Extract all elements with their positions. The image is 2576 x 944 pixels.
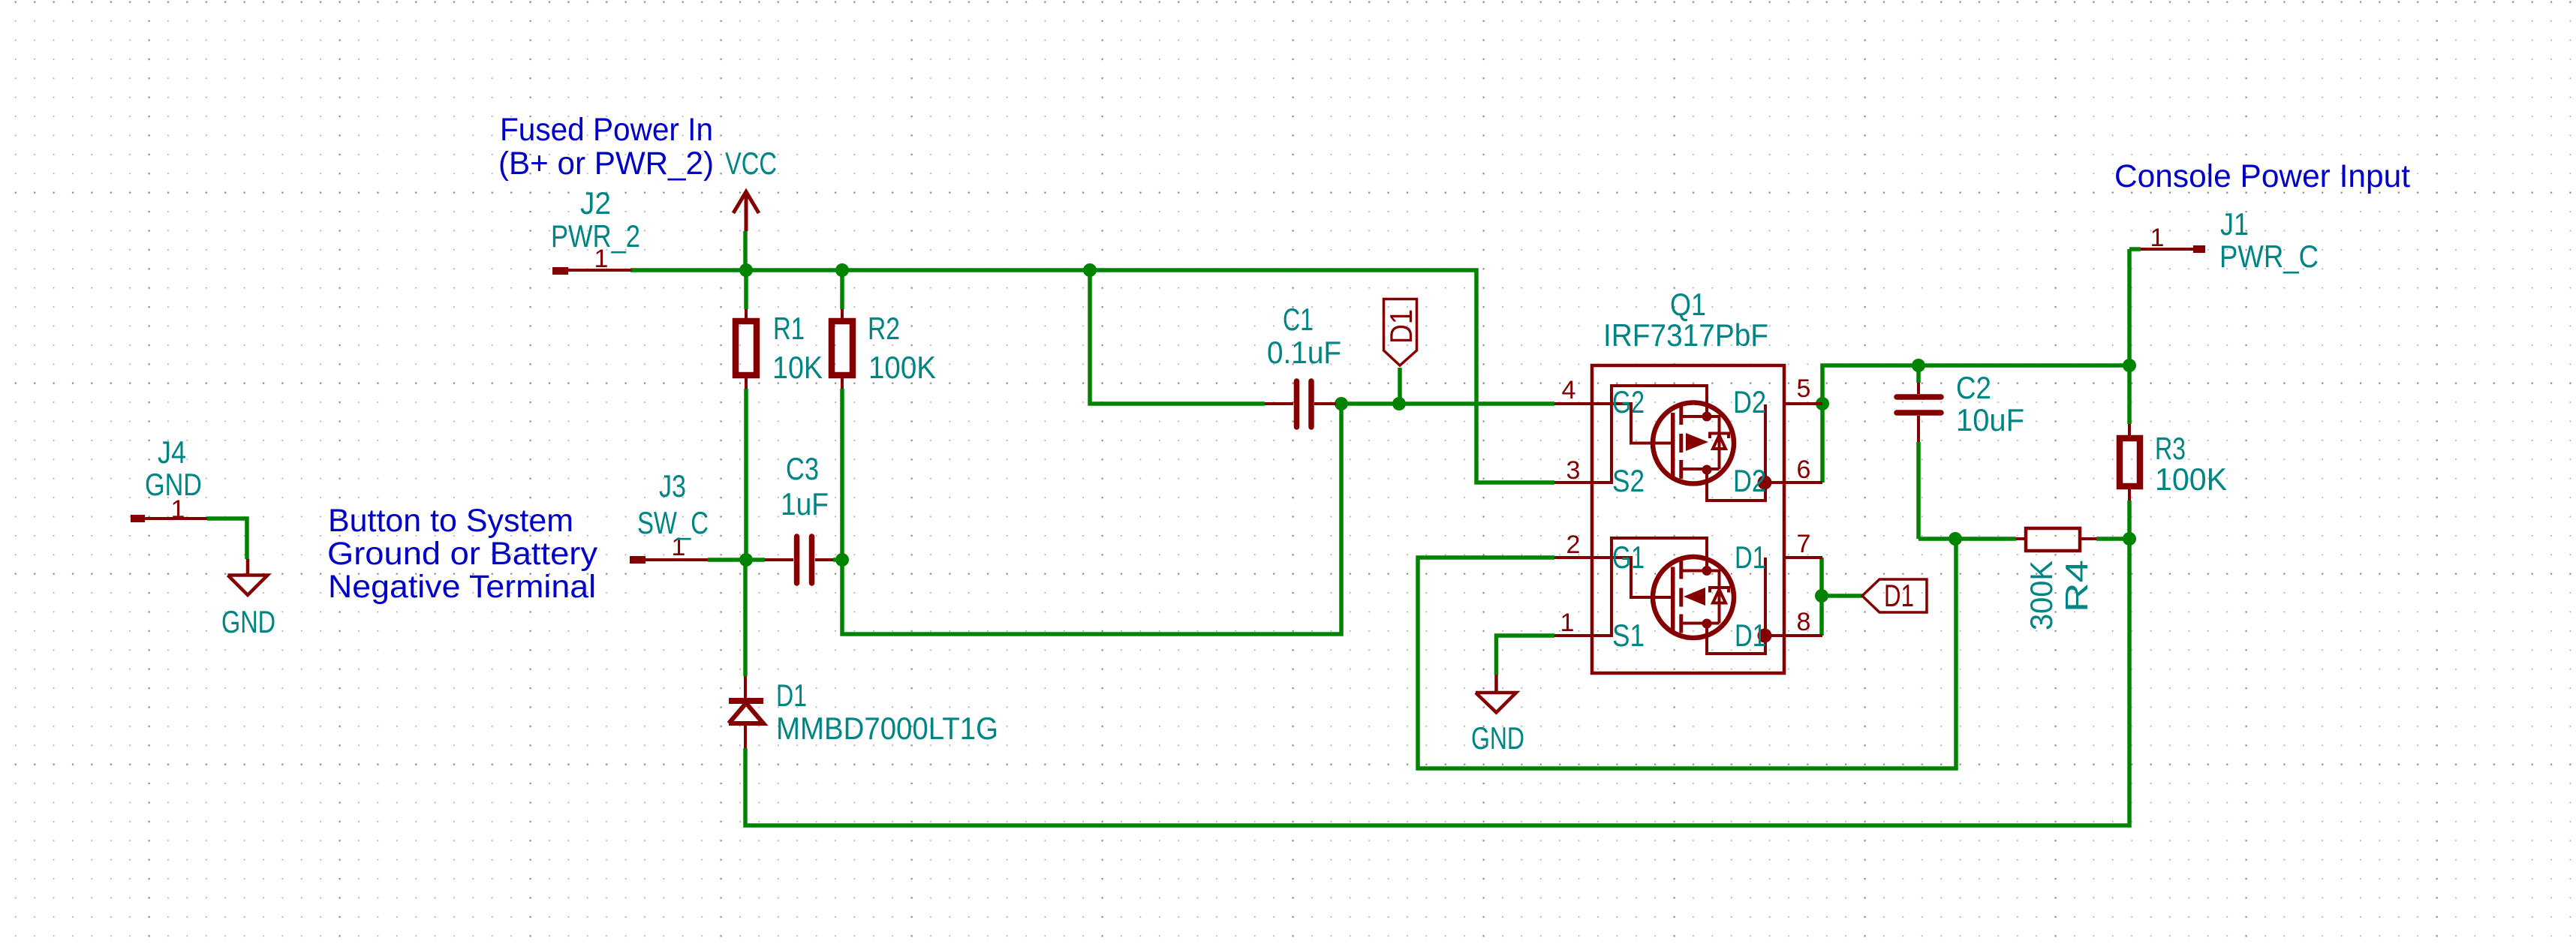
junction R3 bottom <box>2123 532 2136 546</box>
resistor R1 <box>736 309 757 389</box>
pin 1 S1 <box>1554 538 1707 636</box>
svg-text:1: 1 <box>1560 609 1575 637</box>
svg-text:D1: D1 <box>1884 578 1914 613</box>
svg-text:Q1: Q1 <box>1670 287 1706 322</box>
svg-text:R3: R3 <box>2155 431 2186 466</box>
svg-text:VCC: VCC <box>725 146 777 181</box>
svg-text:300K: 300K <box>2024 561 2059 630</box>
svg-text:D1: D1 <box>1735 618 1766 653</box>
svg-text:J3: J3 <box>659 468 686 504</box>
connector J2 pin <box>552 267 631 275</box>
wire top rail from J2 to Q1 pin 3 <box>630 270 1554 483</box>
wire J4 to GND <box>207 519 247 559</box>
wire R2 bottom <box>840 389 844 560</box>
ground symbol at Q1 <box>1476 675 1516 713</box>
wire node 717 left <box>1918 537 2016 541</box>
wire C3 right to C1 right <box>833 404 1341 634</box>
net flag D1 horizontal <box>1862 578 1927 613</box>
resistor R4 <box>2016 528 2096 551</box>
wire G1 net <box>1418 539 1956 768</box>
wire tie pins 5-6 <box>1820 404 1825 483</box>
svg-text:(B+ or PWR_2): (B+ or PWR_2) <box>498 146 714 182</box>
svg-text:6: 6 <box>1797 455 1811 484</box>
svg-text:3: 3 <box>1566 456 1581 485</box>
svg-text:R1: R1 <box>773 311 805 346</box>
wire R3 bottom <box>2127 501 2132 539</box>
wire J1 down <box>2129 249 2141 365</box>
junction VCC rail at R2 <box>835 263 849 277</box>
junction node SW <box>739 553 753 567</box>
svg-text:5: 5 <box>1797 374 1811 403</box>
svg-text:J4: J4 <box>158 434 186 470</box>
svg-text:R2: R2 <box>868 311 900 346</box>
svg-text:G1: G1 <box>1612 540 1645 575</box>
svg-text:1uF: 1uF <box>781 486 829 522</box>
pin 5 D2 <box>1784 402 1822 405</box>
wire S1 to GND <box>1497 636 1555 675</box>
capacitor C1 <box>1265 381 1336 427</box>
ground symbol at J4 <box>228 559 268 595</box>
svg-text:D1: D1 <box>776 678 807 713</box>
svg-text:S2: S2 <box>1612 463 1645 498</box>
capacitor C3 <box>765 537 833 583</box>
wire C1 output to Q1 pin 4 <box>1336 401 1554 406</box>
wire R2 top <box>840 270 844 309</box>
pin 2 G1 <box>1554 558 1671 597</box>
net flag D1 vertical <box>1383 299 1419 366</box>
wire to D1 flag 2 <box>1822 594 1862 598</box>
pin 6 D2 <box>1765 481 1822 484</box>
pin 7 D1 <box>1784 556 1822 559</box>
svg-text:MMBD7000LT1G: MMBD7000LT1G <box>776 711 998 746</box>
svg-text:100K: 100K <box>868 350 936 385</box>
power symbol VCC <box>733 192 759 232</box>
junction D1 flag node <box>1392 397 1406 410</box>
svg-text:10K: 10K <box>772 350 823 385</box>
wire R1 bottom to node SW <box>744 389 748 560</box>
wire C1 feed from top rail <box>1090 270 1265 404</box>
transistor Q1 body <box>1592 365 1784 673</box>
svg-text:PWR_C: PWR_C <box>2219 239 2319 274</box>
junction C3 right <box>835 553 849 567</box>
diode D1 <box>729 676 763 748</box>
junction C1 right <box>1335 397 1348 410</box>
svg-text:7: 7 <box>1797 530 1811 558</box>
connector J1 pin <box>2141 245 2205 253</box>
wire node SW down to D1 <box>743 560 748 676</box>
pin 3 S2 <box>1554 386 1707 483</box>
connector J3 pin <box>630 556 708 564</box>
svg-text:SW_C: SW_C <box>637 505 709 540</box>
connector J4 pin <box>131 515 207 522</box>
svg-text:8: 8 <box>1797 608 1811 636</box>
svg-text:2: 2 <box>1566 531 1581 559</box>
svg-text:0.1uF: 0.1uF <box>1267 335 1341 370</box>
junction Q1 pin7-8 <box>1815 589 1828 603</box>
svg-text:C2: C2 <box>1956 370 1991 405</box>
wire VCC stem <box>743 231 748 270</box>
svg-text:10uF: 10uF <box>1956 402 2024 437</box>
wire D1 bottom rail to R3 bottom <box>745 539 2129 825</box>
svg-text:Negative Terminal: Negative Terminal <box>328 569 596 605</box>
resistor R3 <box>2120 424 2140 501</box>
capacitor C2 <box>1897 383 1941 442</box>
svg-text:C1: C1 <box>1283 302 1314 337</box>
svg-text:J1: J1 <box>2220 206 2249 242</box>
svg-text:100K: 100K <box>2155 461 2227 497</box>
junction Q1 pin5 <box>1816 397 1829 410</box>
junction VCC rail at R1 <box>739 263 753 277</box>
wire tie pins 7-8 <box>1819 558 1824 636</box>
wire Q1 pin5 riser and rail to J1 <box>1822 365 2129 404</box>
svg-text:Button to System: Button to System <box>328 503 573 539</box>
svg-text:S1: S1 <box>1612 618 1645 653</box>
svg-text:1: 1 <box>2150 224 2165 252</box>
wire C2 top <box>1916 365 1921 383</box>
mosfet P-channel top <box>1653 403 1772 501</box>
junction C2 top <box>1912 359 1925 372</box>
pin 4 G2 <box>1554 404 1671 443</box>
svg-text:C3: C3 <box>786 451 819 486</box>
svg-text:D2: D2 <box>1733 384 1766 419</box>
mosfet N-channel bottom <box>1653 557 1772 654</box>
junction J1 column top <box>2123 359 2136 372</box>
junction VCC rail at C1 feed <box>1083 263 1097 277</box>
svg-text:D2: D2 <box>1733 463 1766 498</box>
svg-text:GND: GND <box>145 467 202 502</box>
svg-text:IRF7317PbF: IRF7317PbF <box>1603 317 1768 353</box>
svg-text:D1: D1 <box>1383 309 1419 344</box>
svg-text:Console Power Input: Console Power Input <box>2114 158 2410 194</box>
wire J3 to node SW <box>708 558 765 562</box>
wire R1 top <box>744 270 748 309</box>
svg-text:J2: J2 <box>580 185 611 221</box>
pin 8 D1 <box>1765 634 1822 637</box>
wire D1 flag stem <box>1398 368 1402 404</box>
svg-text:Fused Power In: Fused Power In <box>500 112 713 148</box>
svg-text:Ground or Battery: Ground or Battery <box>327 536 598 572</box>
wire R3 top <box>2127 365 2132 424</box>
svg-text:D1: D1 <box>1735 540 1766 575</box>
junction C2 bottom node <box>1949 532 1962 546</box>
svg-text:R4: R4 <box>2059 560 2094 612</box>
svg-text:PWR_2: PWR_2 <box>551 218 640 254</box>
svg-text:GND: GND <box>1471 720 1524 756</box>
svg-text:G2: G2 <box>1612 384 1645 419</box>
svg-text:GND: GND <box>221 604 275 639</box>
wire C2 bottom <box>1916 442 1921 539</box>
svg-text:4: 4 <box>1562 376 1576 404</box>
resistor R2 <box>832 309 853 389</box>
wire node 717 right <box>2096 537 2129 541</box>
